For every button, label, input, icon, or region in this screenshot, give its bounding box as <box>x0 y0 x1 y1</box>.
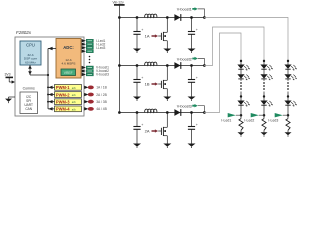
ground <box>133 97 141 102</box>
wire <box>287 92 289 101</box>
ADC input pin tag V-boost2 <box>82 69 110 73</box>
ADC block <box>56 39 81 79</box>
resistor R2 (current sense) <box>262 119 266 131</box>
internal bus wire <box>47 49 49 109</box>
junction string 3 top <box>287 60 289 62</box>
wire <box>240 92 242 101</box>
net label V-boost2 <box>177 57 205 66</box>
MCU outer box U1 <box>15 37 84 116</box>
net label I-Led3 <box>268 113 287 122</box>
VREF block <box>61 69 76 76</box>
svg-text:PWM-2: PWM-2 <box>56 92 70 97</box>
wire <box>263 105 265 118</box>
capacitor C1a (input) <box>133 18 143 49</box>
wire <box>263 130 265 132</box>
ground <box>163 144 171 149</box>
wire CPU to bus (bidirectional arrow) <box>28 65 48 75</box>
junction string 2 <box>263 95 265 97</box>
PWM output pin 1A / 1B <box>84 85 107 89</box>
junction V-boost3 tag <box>203 111 206 114</box>
junction string 3 <box>287 95 289 97</box>
wire boost stage 2 rail <box>119 65 204 67</box>
junction output node 2 <box>190 64 193 67</box>
junction Vin bus / stage 1 <box>118 16 121 19</box>
svg-text:a/b: a/b <box>72 86 76 90</box>
svg-text:+: + <box>141 123 143 127</box>
ADC input pin tag (unlabeled) <box>82 50 94 53</box>
wire <box>263 69 265 74</box>
wire <box>287 130 289 132</box>
svg-text:+: + <box>141 28 143 32</box>
svg-text:+: + <box>141 76 143 80</box>
net label V-boost3 <box>177 104 205 113</box>
capacitor C3a (input) <box>133 113 143 144</box>
PWM-1 block <box>55 85 82 91</box>
junction Vin bus / stage 2 <box>118 64 121 67</box>
transistor Q2 (MOSFET) <box>158 66 167 97</box>
PWM-4 block <box>55 106 82 112</box>
ground (string 3) <box>285 132 292 137</box>
svg-text:Vin-12v: Vin-12v <box>113 0 124 4</box>
svg-text:VREF: VREF <box>64 71 73 75</box>
PWM output pin 3A / 3B <box>84 100 107 104</box>
junction bus/PWM-3 <box>47 101 49 103</box>
junction V-boost1 tag <box>203 16 206 19</box>
junction string 2 top <box>263 60 265 62</box>
wire <box>263 92 265 101</box>
svg-text:4A / 4B: 4A / 4B <box>96 107 107 111</box>
LED D21 <box>260 65 272 71</box>
junction output node 1 <box>190 16 193 19</box>
svg-text:a/b: a/b <box>72 107 76 111</box>
ADC input pin tag V-boost1 <box>82 66 110 70</box>
wire bus to PWM-4 <box>48 107 55 110</box>
svg-text:CPU: CPU <box>26 43 35 48</box>
svg-text:I-Led2: I-Led2 <box>244 118 254 122</box>
svg-text:a/b: a/b <box>72 93 76 97</box>
wire bus to ADC <box>48 47 56 51</box>
junction Vin bus / stage 3 <box>118 111 121 114</box>
junction input cap C1a <box>136 16 139 19</box>
wire V-boost1 routing to LED string 3 <box>204 18 288 60</box>
wire <box>287 79 289 81</box>
Comms block <box>20 92 38 114</box>
svg-text:PWM-4: PWM-4 <box>56 107 70 112</box>
ground (string 1) <box>238 132 245 137</box>
svg-text:a/b: a/b <box>72 100 76 104</box>
transistor Q1 (MOSFET) <box>158 18 167 49</box>
power Vin-12V <box>113 0 125 17</box>
wire bus to PWM-3 <box>48 100 55 103</box>
wire <box>240 130 242 132</box>
node I-Led3 <box>287 114 290 117</box>
svg-text:V-boost3: V-boost3 <box>177 105 192 109</box>
ellipsis (more LEDs, string 3) <box>287 82 289 90</box>
gate signal label 1A <box>145 34 159 39</box>
ground <box>188 144 196 149</box>
svg-text:V-boost1: V-boost1 <box>177 8 192 12</box>
wire bus to PWM-2 <box>48 93 55 96</box>
gate signal label 1B <box>145 82 159 87</box>
junction bus/PWM-2 <box>47 94 49 96</box>
CPU block <box>20 41 41 65</box>
svg-text:PWM-1: PWM-1 <box>56 85 70 90</box>
capacitor C1b (output) <box>188 18 198 49</box>
wire boost stage 3 rail <box>119 112 204 114</box>
ADC input pin tag I-Led2 <box>82 42 106 46</box>
wire <box>240 69 242 74</box>
svg-text:1A: 1A <box>145 34 150 39</box>
ground <box>133 49 141 54</box>
ground (MCU) <box>5 99 12 104</box>
LED D11 <box>237 65 249 71</box>
net label V-boost1 <box>177 7 205 17</box>
svg-text:3A / 3B: 3A / 3B <box>96 100 107 104</box>
svg-text:I-Led3: I-Led3 <box>268 118 278 122</box>
svg-text:Comms: Comms <box>23 87 35 91</box>
net label I-Led2 <box>244 113 263 122</box>
svg-text:I-Led3: I-Led3 <box>96 46 106 50</box>
ADC input pin tag I-Led1 <box>82 39 106 43</box>
junction switch node 3 <box>166 111 169 114</box>
junction switch node 2 <box>166 64 169 67</box>
ellipsis (more ADC channels) <box>89 56 91 64</box>
wire <box>263 79 265 81</box>
ADC input pin tag V-boost3 <box>82 73 110 77</box>
svg-text:2A / 2B: 2A / 2B <box>96 93 107 97</box>
LED D33 <box>284 101 296 107</box>
gate signal label 2A <box>145 129 159 134</box>
net label I-Led1 <box>221 113 240 122</box>
node I-Led2 <box>263 114 266 117</box>
diode D2 <box>174 62 180 69</box>
junction bus/CPU <box>47 74 49 76</box>
inductor L3 <box>145 109 157 112</box>
diode D1 <box>174 14 180 21</box>
junction input cap C3a <box>136 111 139 114</box>
junction V-boost2 tag <box>203 64 206 67</box>
resistor R1 (current sense) <box>239 119 243 131</box>
junction input cap C2a <box>136 64 139 67</box>
junction bus/PWM-1 <box>47 86 49 88</box>
LED D23 <box>260 101 272 107</box>
wire <box>287 105 289 118</box>
wire V-boost3 routing to LED string 1 <box>204 33 241 113</box>
wire Vin bus <box>118 18 120 113</box>
ellipsis (more LEDs, string 2) <box>263 82 265 90</box>
svg-text:ADC:: ADC: <box>63 45 73 50</box>
wire <box>240 105 242 118</box>
ellipsis (more LEDs, string 1) <box>240 82 242 90</box>
inductor L1 <box>145 14 157 17</box>
svg-text:2A: 2A <box>145 129 150 134</box>
ADC input pin tag I-Led3 <box>82 46 106 50</box>
wire V-boost2 routing to LED string 2 <box>204 27 264 66</box>
wire boost stage 1 rail <box>119 17 204 19</box>
LED D32 <box>284 74 296 80</box>
wire LED string 3 top <box>287 60 289 65</box>
svg-text:+: + <box>196 76 198 80</box>
capacitor C2b (output) <box>188 66 198 97</box>
ground <box>163 97 171 102</box>
PWM output pin 4A / 4B <box>84 107 107 111</box>
power 3V3 <box>5 73 16 84</box>
capacitor C3b (output) <box>188 113 198 144</box>
wire <box>287 69 289 74</box>
junction string 1 top <box>240 60 242 62</box>
wire LED string 1 top <box>240 60 242 65</box>
svg-text:I-Led1: I-Led1 <box>221 118 231 122</box>
wire <box>240 79 242 81</box>
ground <box>188 97 196 102</box>
diode D3 <box>174 109 180 116</box>
junction switch node 1 <box>166 16 169 19</box>
ground <box>188 49 196 54</box>
wire LED string 2 top <box>263 60 265 65</box>
wire bus to PWM-1 <box>48 86 55 89</box>
svg-text:V-boost3: V-boost3 <box>96 73 109 77</box>
junction string 1 <box>240 95 242 97</box>
svg-text:F2802x: F2802x <box>16 30 32 35</box>
svg-text:+: + <box>196 28 198 32</box>
PWM-2 block <box>55 92 82 98</box>
svg-text:1A / 1B: 1A / 1B <box>96 86 107 90</box>
junction output node 3 <box>190 111 193 114</box>
svg-text:1B: 1B <box>145 82 150 87</box>
svg-text:60 MHz: 60 MHz <box>25 60 36 64</box>
node I-Led1 <box>240 114 243 117</box>
ground (string 2) <box>261 132 268 137</box>
capacitor C2a (input) <box>133 66 143 97</box>
PWM output pin 2A / 2B <box>84 93 107 97</box>
LED D22 <box>260 74 272 80</box>
svg-text:4.6 MSPS: 4.6 MSPS <box>62 61 76 65</box>
svg-text:+: + <box>196 123 198 127</box>
svg-text:CAN: CAN <box>25 107 32 111</box>
PWM-3 block <box>55 99 82 105</box>
inductor L2 <box>145 62 157 65</box>
resistor R3 (current sense) <box>286 119 290 131</box>
transistor Q3 (MOSFET) <box>158 113 167 144</box>
LED D12 <box>237 74 249 80</box>
ground <box>133 144 141 149</box>
LED D13 <box>237 101 249 107</box>
svg-text:PWM-3: PWM-3 <box>56 99 70 104</box>
LED D31 <box>284 65 296 71</box>
svg-text:V-boost2: V-boost2 <box>177 57 192 61</box>
ground <box>163 49 171 54</box>
wire MCU ground stub <box>9 97 16 99</box>
svg-text:3V3: 3V3 <box>5 73 11 77</box>
